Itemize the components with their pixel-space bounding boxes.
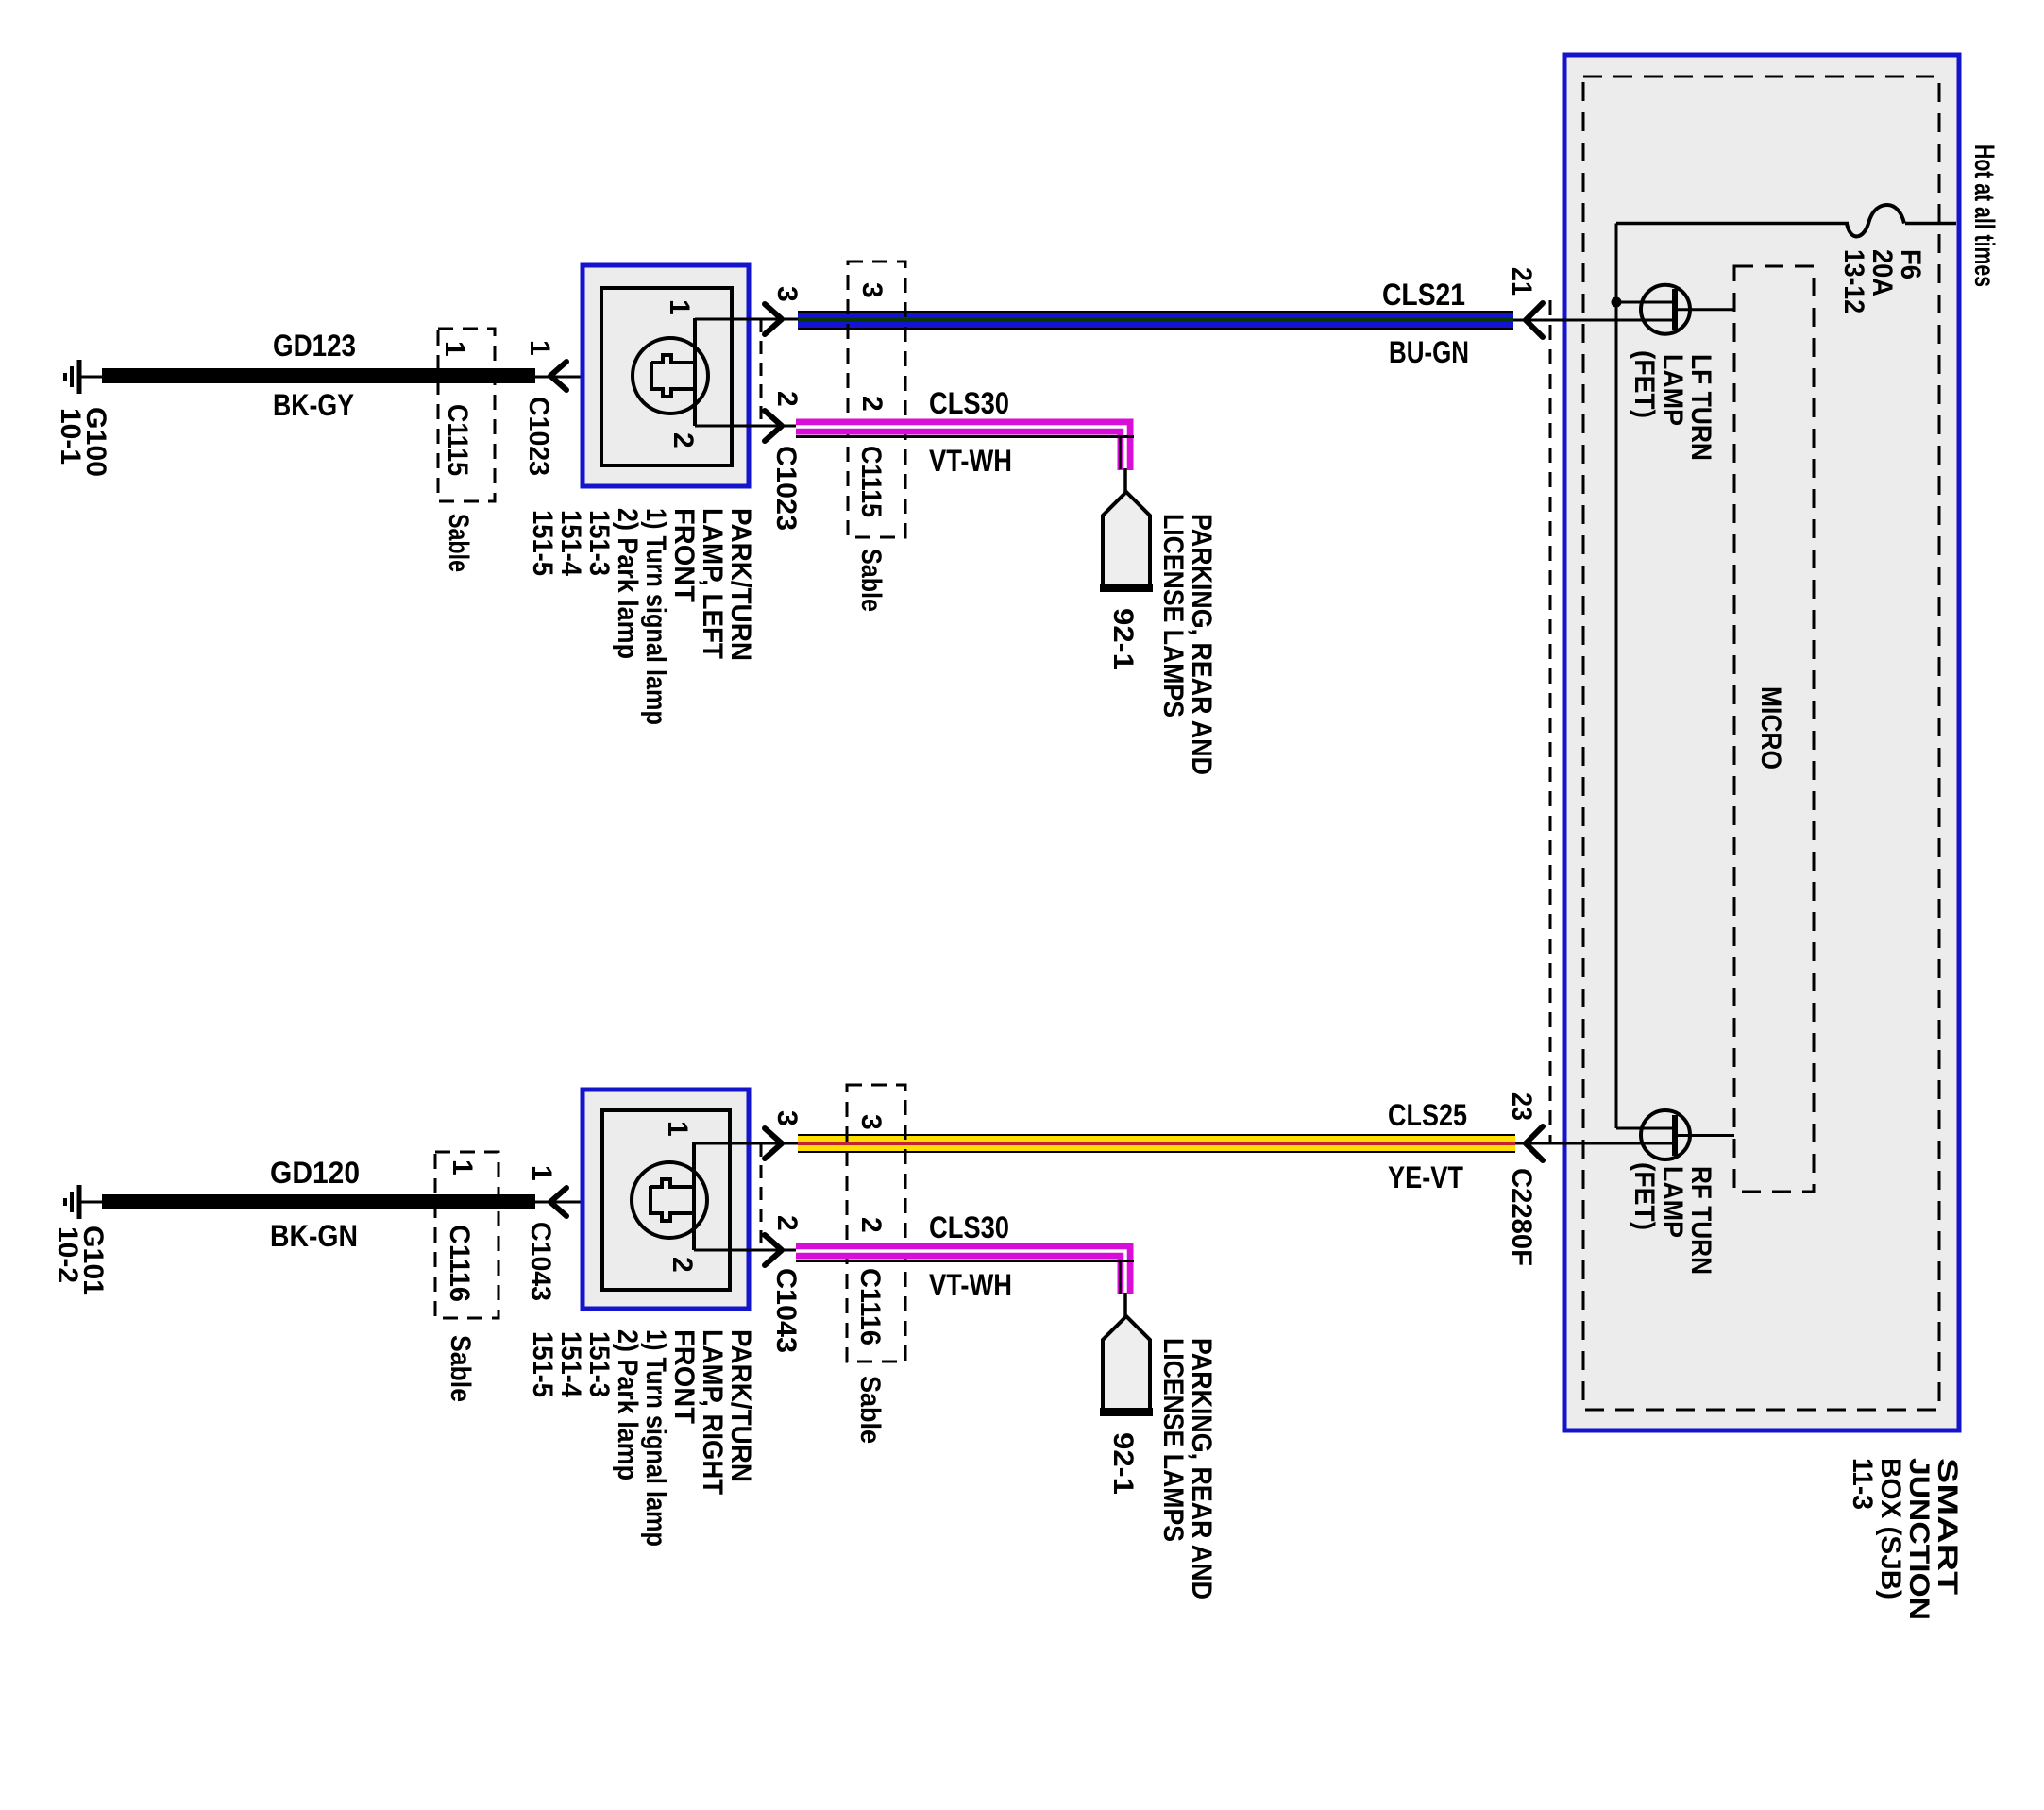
wire into SJB pin 23 [1515,1142,1673,1145]
svg-text:JUNCTION: JUNCTION [1903,1458,1934,1620]
svg-text:1: 1 [664,299,695,315]
svg-text:RF TURN: RF TURN [1685,1166,1716,1275]
fuse F6 wire [1616,222,1849,226]
connector C1115 (inline, pins 2-3) [848,262,905,537]
node G100 label [55,407,111,477]
svg-text:C1023: C1023 [770,446,802,531]
svg-text:1) Turn signal lamp: 1) Turn signal lamp [640,508,671,725]
svg-text:21: 21 [1506,267,1537,296]
SMART JUNCTION BOX (outer box) [1564,55,1959,1430]
svg-text:92-1: 92-1 [1107,1432,1139,1495]
svg-text:Sable: Sable [854,1376,886,1444]
off-page connector 92-1 (pentagon) [1100,492,1153,592]
connector C1115 (inline, ground wire) [438,329,495,501]
svg-text:10-2: 10-2 [52,1226,83,1283]
wire CLS21 BU-GN (blue cable) [798,311,1513,330]
svg-text:LAMP, LEFT: LAMP, LEFT [697,508,728,659]
svg-text:CLS21: CLS21 [1382,278,1465,312]
lamp inner housing box [602,1110,730,1290]
svg-text:C2280F: C2280F [1506,1168,1537,1266]
SJB inner dashed box [1583,76,1939,1410]
fuse F6 symbol [1847,205,1904,236]
terminal arrow SJB pin 21 [1526,303,1543,337]
svg-text:C1043: C1043 [770,1268,802,1353]
svg-text:23: 23 [1506,1092,1537,1121]
svg-text:1: 1 [526,1165,557,1181]
junction [1612,297,1622,308]
svg-text:C1116: C1116 [854,1268,886,1345]
svg-text:MICRO: MICRO [1755,686,1786,770]
svg-text:LAMP, RIGHT: LAMP, RIGHT [697,1329,728,1495]
svg-text:1: 1 [524,340,555,356]
lamp inner housing box [601,288,732,465]
svg-text:C1116: C1116 [444,1225,475,1302]
wire to lamp pin1 [535,376,636,379]
svg-text:10-1: 10-1 [55,408,86,465]
svg-text:CLS30: CLS30 [929,386,1009,420]
wire GD120 BK-GN (thick ground wire) [102,1194,535,1209]
svg-text:BK-GY: BK-GY [273,388,354,422]
label PARKING, REAR AND LICENSE LAMPS [1157,514,1217,775]
wire lamp pin2 out [694,1249,798,1252]
wire into SJB pin 21 [1513,319,1673,322]
svg-text:1) Turn signal lamp: 1) Turn signal lamp [640,1329,671,1547]
svg-text:2: 2 [856,396,887,412]
lamp description block [527,508,756,725]
ground G100 [65,360,104,394]
svg-text:GD123: GD123 [273,329,356,363]
wire RF FET gate to MICRO [1678,1134,1734,1137]
svg-text:PARKING, REAR AND: PARKING, REAR AND [1186,514,1217,775]
wire to right lamp pin1 [535,1201,636,1204]
wire lamp pin2 out [695,425,798,428]
svg-text:1: 1 [662,1121,693,1137]
svg-text:PARK/TURN: PARK/TURN [725,508,756,661]
label F6 20A 13-12 [1838,249,1926,313]
svg-text:92-1: 92-1 [1107,608,1139,670]
lamp PARK/TURN LAMP RIGHT FRONT (box) [583,1090,749,1309]
svg-text:151-3: 151-3 [583,1331,615,1397]
svg-text:SMART: SMART [1932,1458,1963,1595]
svg-text:151-4: 151-4 [555,510,586,576]
svg-text:VT-WH: VT-WH [929,444,1012,478]
connector C2280F dashed face line [1549,300,1552,1142]
terminal arrow lamp pin3 [765,304,782,334]
terminal arrow at C1043 pin1 [550,1188,566,1216]
connector C1023 dashed face line [760,319,763,426]
wire junction to RF FET [1616,1127,1673,1130]
supply wire from fuse [1615,224,1618,1129]
svg-text:11-3: 11-3 [1847,1458,1878,1510]
lamp description block [527,1329,756,1547]
transistor LF TURN LAMP FET [1641,285,1690,334]
svg-text:YE-VT: YE-VT [1388,1160,1463,1194]
svg-text:3: 3 [771,1110,802,1126]
svg-text:LAMP: LAMP [1657,354,1688,426]
svg-text:PARK/TURN: PARK/TURN [725,1329,756,1482]
svg-text:Hot at all times: Hot at all times [1968,144,2000,287]
svg-text:BK-GN: BK-GN [270,1219,358,1253]
svg-text:CLS25: CLS25 [1388,1098,1467,1132]
connector C1043 dashed face line [760,1143,763,1250]
svg-text:CLS30: CLS30 [929,1210,1009,1244]
off-page connector 92-1 right (pentagon) [1100,1316,1153,1416]
label LF TURN LAMP (FET) [1629,350,1716,461]
label RF TURN LAMP (FET) [1629,1162,1716,1275]
svg-text:2: 2 [771,391,802,407]
ground G101 [65,1185,104,1219]
svg-text:(FET): (FET) [1629,350,1660,418]
svg-text:F6: F6 [1895,249,1926,279]
label SMART JUNCTION BOX (SJB) 11-3 [1847,1458,1963,1620]
transistor RF TURN LAMP FET [1641,1110,1690,1159]
svg-text:LICENSE LAMPS: LICENSE LAMPS [1157,1338,1189,1542]
svg-text:151-5: 151-5 [527,510,558,576]
wire LF FET gate to MICRO [1678,308,1734,311]
svg-text:BU-GN: BU-GN [1389,335,1469,369]
bulb symbol (left lamp) [633,318,708,426]
terminal arrow lamp pin2 [765,411,782,441]
bulb symbol (right lamp) [632,1142,707,1250]
connector C1116 (inline, pins 2-3) [847,1085,905,1362]
svg-text:151-5: 151-5 [527,1331,558,1397]
svg-text:2) Park lamp: 2) Park lamp [612,1329,643,1480]
svg-text:FRONT: FRONT [668,508,700,602]
svg-text:LAMP: LAMP [1657,1166,1688,1238]
svg-text:C1115: C1115 [855,446,887,517]
terminal arrow lamp pin2 [765,1235,782,1265]
svg-text:13-12: 13-12 [1838,249,1869,313]
svg-text:LF TURN: LF TURN [1685,354,1716,461]
label PARKING, REAR AND LICENSE LAMPS (right) [1157,1338,1217,1599]
wire CLS30 VT-WH (magenta cable) [796,427,1134,493]
svg-text:GD120: GD120 [270,1156,360,1190]
wire CLS25 YE-VT (yellow cable) [798,1134,1515,1153]
svg-text:2: 2 [855,1217,887,1233]
svg-text:1: 1 [439,341,470,357]
svg-text:Sable: Sable [855,549,887,612]
wire junction to LF FET [1616,301,1673,304]
wire GD123 BK-GY (thick ground wire) [102,368,535,383]
terminal arrow at C1023 pin1 [550,362,566,390]
svg-text:FRONT: FRONT [668,1329,700,1424]
svg-text:C1115: C1115 [442,404,473,476]
svg-text:BOX (SJB): BOX (SJB) [1875,1458,1906,1599]
svg-text:Sable: Sable [445,1335,476,1402]
svg-text:VT-WH: VT-WH [929,1268,1012,1302]
MICRO dashed box [1734,266,1814,1192]
svg-text:151-3: 151-3 [583,510,615,576]
svg-text:C1043: C1043 [525,1222,556,1301]
svg-text:151-4: 151-4 [555,1331,586,1397]
svg-text:20A: 20A [1867,249,1898,296]
lamp PARK/TURN LAMP LEFT FRONT (box) [583,265,749,486]
svg-text:LICENSE LAMPS: LICENSE LAMPS [1157,514,1189,718]
svg-text:(FET): (FET) [1629,1162,1660,1230]
svg-text:2: 2 [771,1215,802,1231]
svg-text:2) Park lamp: 2) Park lamp [612,508,643,659]
svg-text:Sable: Sable [443,514,474,572]
svg-text:2: 2 [667,432,699,448]
wire lamp pin3 out [695,318,798,321]
svg-text:3: 3 [771,286,802,302]
connector C1116 (inline, ground wire) [435,1152,498,1318]
svg-text:3: 3 [856,282,887,298]
svg-text:C1023: C1023 [523,397,554,476]
node G101 label [52,1226,109,1295]
wire CLS30 VT-WH right (magenta cable) [796,1251,1134,1317]
terminal arrow SJB pin 23 [1526,1126,1543,1160]
svg-text:1: 1 [447,1159,478,1176]
svg-text:3: 3 [855,1114,887,1130]
terminal arrow lamp pin3 [765,1128,782,1159]
wire lamp pin3 out [694,1142,798,1145]
svg-text:2: 2 [667,1257,698,1273]
svg-text:PARKING, REAR AND: PARKING, REAR AND [1186,1338,1217,1599]
